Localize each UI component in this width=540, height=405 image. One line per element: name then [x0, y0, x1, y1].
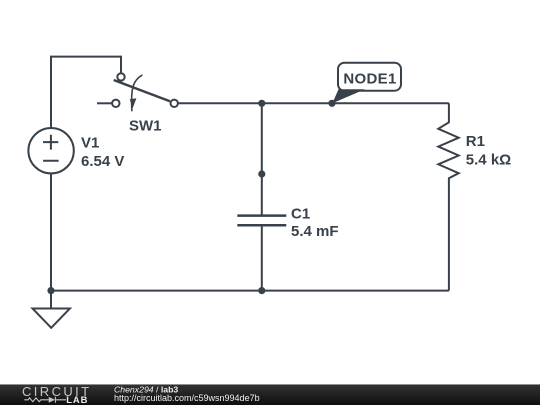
svg-text:SW1: SW1	[129, 117, 162, 134]
svg-text:NODE1: NODE1	[343, 70, 396, 87]
svg-text:V1: V1	[81, 135, 99, 152]
svg-text:http://circuitlab.com/c59wsn99: http://circuitlab.com/c59wsn994de7b	[114, 393, 260, 403]
svg-text:C1: C1	[291, 206, 310, 223]
svg-text:5.4 kΩ: 5.4 kΩ	[466, 152, 511, 169]
svg-text:R1: R1	[466, 133, 485, 150]
svg-text:5.4 mF: 5.4 mF	[291, 223, 339, 240]
svg-text:LAB: LAB	[66, 394, 88, 405]
svg-text:6.54 V: 6.54 V	[81, 153, 124, 170]
